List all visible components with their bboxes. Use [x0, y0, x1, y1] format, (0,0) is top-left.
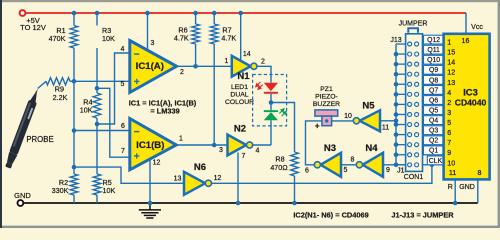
svg-text:13: 13 — [447, 79, 455, 87]
bus junction dots — [394, 52, 399, 57]
svg-text:16: 16 — [462, 37, 470, 45]
node CLK junction — [430, 163, 435, 168]
inverter N2 — [228, 135, 247, 156]
svg-text:7: 7 — [121, 148, 125, 155]
wire IC1(B) gnd pin 12 — [149, 158, 151, 203]
svg-text:CD4040: CD4040 — [455, 98, 487, 108]
svg-text:J1-J13 = JUMPER: J1-J13 = JUMPER — [391, 211, 454, 220]
wire N2 gnd — [237, 153, 239, 204]
wire rail to R3 — [96, 13, 98, 26]
svg-text:N5: N5 — [362, 101, 375, 112]
node N2 gnd — [236, 201, 241, 206]
svg-text:11: 11 — [382, 125, 389, 132]
svg-text:12: 12 — [214, 175, 222, 182]
node R8 gnd — [292, 201, 297, 206]
node LED mid — [269, 100, 274, 105]
connector CON1 — [406, 34, 423, 172]
resistor R5 — [93, 174, 101, 195]
svg-text:JUMPER: JUMPER — [399, 21, 428, 28]
wire left stubs — [396, 43, 406, 45]
wire R7 to IC1(B) output — [213, 44, 215, 145]
svg-text:8: 8 — [351, 157, 355, 164]
wire R4-R5 tap to pin 4 — [97, 53, 130, 124]
svg-text:330K: 330K — [52, 186, 69, 195]
counter IC3 — [444, 34, 490, 180]
svg-text:DUAL: DUAL — [230, 92, 248, 99]
wire R9 to probe node — [70, 80, 74, 82]
svg-text:Q11: Q11 — [427, 47, 440, 54]
svg-text:10K: 10K — [80, 106, 93, 115]
wire red LED to mid node — [270, 94, 272, 103]
resistor R7 — [210, 24, 218, 44]
wire IC3 pin 8 to GND — [477, 179, 479, 203]
svg-text:1: 1 — [179, 136, 183, 143]
svg-text:4: 4 — [121, 46, 125, 53]
wire N4 in to J1 — [383, 164, 406, 166]
svg-text:470K: 470K — [49, 34, 66, 43]
svg-text:COLOUR: COLOUR — [225, 99, 254, 106]
wire rail to R1 — [73, 13, 75, 26]
svg-text:13: 13 — [174, 176, 182, 183]
svg-text:1: 1 — [225, 58, 229, 65]
svg-text:10K: 10K — [102, 34, 115, 43]
probe tip wire — [38, 81, 46, 88]
wire probe node to N6 input — [74, 167, 184, 183]
Q output label boxes — [424, 35, 444, 44]
node rail-R6 — [193, 11, 198, 16]
svg-text:+: + — [315, 122, 320, 131]
probe body — [4, 87, 42, 169]
svg-text:BUZZER: BUZZER — [313, 101, 340, 108]
wire IC1(B) out to N2 — [176, 144, 227, 146]
GND terminal circle — [18, 200, 24, 206]
svg-text:4: 4 — [447, 89, 451, 97]
svg-text:IC2(N1- N6) = CD4069: IC2(N1- N6) = CD4069 — [293, 211, 368, 220]
svg-text:TO 12V: TO 12V — [20, 23, 46, 32]
svg-text:PIEZO-: PIEZO- — [315, 94, 338, 101]
svg-text:Q3: Q3 — [429, 128, 438, 135]
svg-text:CON1: CON1 — [404, 174, 424, 181]
wire R4 to R5 — [96, 118, 98, 174]
svg-text:5: 5 — [344, 167, 348, 174]
inverter N5 — [360, 110, 380, 131]
ground symbol — [139, 203, 161, 218]
svg-text:2: 2 — [447, 99, 451, 107]
svg-text:= LM339: = LM339 — [150, 107, 179, 116]
svg-text:5: 5 — [121, 81, 125, 88]
svg-text:2.2K: 2.2K — [53, 93, 68, 102]
wire N4 out to N3 in — [341, 164, 356, 166]
+V supply rail (red) — [23, 12, 466, 14]
svg-text:7: 7 — [242, 153, 246, 160]
svg-text:−: − — [134, 127, 140, 138]
op-amp IC1(A) — [130, 41, 177, 93]
svg-text:10K: 10K — [103, 186, 116, 195]
svg-text:9: 9 — [386, 167, 390, 174]
svg-text:2: 2 — [261, 59, 265, 66]
svg-text:N2: N2 — [234, 124, 246, 135]
node R4 bottom junction — [95, 122, 100, 127]
svg-text:GND: GND — [459, 184, 475, 191]
wire probe line to pin 5 — [74, 80, 130, 82]
node rail-N1 — [238, 11, 243, 16]
svg-text:Q12: Q12 — [427, 37, 440, 44]
svg-text:2: 2 — [180, 69, 184, 76]
node reset gnd — [453, 201, 458, 206]
svg-text:Q9: Q9 — [429, 67, 438, 74]
wire N1 out to LED — [257, 66, 271, 82]
svg-text:Q4: Q4 — [429, 118, 438, 125]
node rail-pin3 — [145, 11, 150, 16]
wire R8 to GND — [294, 176, 296, 203]
svg-text:+: + — [134, 77, 140, 88]
svg-text:Q6: Q6 — [429, 97, 438, 104]
inverter N1 — [232, 56, 251, 77]
wire R6 to IC1(A) output — [195, 44, 197, 66]
svg-text:1: 1 — [447, 39, 451, 47]
op-amp IC1(B) — [130, 119, 177, 170]
inverter N4 — [363, 153, 383, 177]
wire probe node to pin 6 — [74, 130, 131, 132]
node R6 junction — [193, 64, 198, 69]
svg-text:Q2: Q2 — [429, 138, 438, 145]
svg-text:6: 6 — [447, 129, 451, 137]
wire N1 Vdd pin 14 — [240, 13, 242, 61]
LED1 dashed box — [253, 75, 287, 126]
wire R3 to R4 — [96, 48, 98, 93]
wire buzzer to N5 out — [332, 120, 353, 122]
supply terminal circle — [20, 10, 26, 16]
wire buzzer to N3 out — [306, 121, 322, 165]
LED red (down) — [264, 83, 278, 91]
svg-text:J1: J1 — [397, 167, 405, 174]
node pin12 gnd — [148, 201, 153, 206]
wire N5 in to bus — [380, 120, 396, 122]
svg-text:8: 8 — [478, 169, 482, 177]
resistor R4 — [93, 93, 101, 118]
inverter N6 — [184, 172, 205, 195]
buzzer PZ1 — [315, 110, 338, 116]
svg-text:3: 3 — [219, 147, 223, 154]
LED green (up) — [264, 110, 278, 112]
wire R1 to probe node — [73, 48, 75, 174]
svg-text:N1: N1 — [237, 71, 250, 82]
svg-text:+: + — [134, 152, 140, 163]
svg-text:9: 9 — [447, 149, 451, 157]
svg-text:3: 3 — [151, 40, 155, 47]
svg-text:4.7K: 4.7K — [174, 34, 189, 43]
svg-text:Q7: Q7 — [429, 87, 438, 94]
svg-text:12: 12 — [153, 160, 161, 167]
wire IC1(A) Vcc pin 3 — [147, 13, 149, 51]
svg-text:10: 10 — [344, 113, 352, 120]
svg-text:−: − — [134, 50, 140, 61]
svg-text:10: 10 — [447, 159, 455, 167]
inverter N3 — [321, 153, 341, 177]
jumper bus — [395, 44, 397, 165]
svg-text:14: 14 — [243, 51, 251, 58]
LED green arrows — [279, 109, 286, 116]
wire rail to R7 — [213, 13, 215, 24]
jumper shunt symbol — [408, 28, 418, 33]
svg-text:J13: J13 — [390, 37, 401, 44]
resistor R8 — [291, 152, 299, 176]
svg-text:6: 6 — [121, 123, 125, 130]
svg-text:IC1(A): IC1(A) — [136, 61, 164, 72]
resistor R6 — [192, 24, 200, 44]
svg-text:Vcc: Vcc — [471, 24, 483, 31]
svg-text:N3: N3 — [324, 143, 336, 154]
svg-text:LED1: LED1 — [231, 84, 248, 91]
svg-text:PZ1: PZ1 — [320, 86, 333, 93]
svg-text:6: 6 — [305, 168, 309, 175]
node pin-6 tap — [72, 128, 77, 133]
node N6 tap — [72, 165, 77, 170]
svg-text:PROBE: PROBE — [26, 135, 53, 144]
frame border — [0, 0, 500, 2]
svg-text:14: 14 — [447, 59, 455, 67]
svg-text:Q8: Q8 — [429, 77, 438, 84]
node N5 bus tap — [394, 119, 399, 124]
svg-text:GND: GND — [14, 191, 31, 200]
wire right stubs to IC3 — [421, 43, 444, 45]
node rail-R3 — [95, 11, 100, 16]
wire R2 to GND — [73, 195, 75, 203]
svg-text:Q5: Q5 — [429, 107, 438, 114]
resistor R2 — [70, 174, 78, 195]
GND rail (black) — [23, 202, 478, 204]
svg-text:3: 3 — [447, 109, 451, 117]
wire rail to R6 — [195, 13, 197, 24]
svg-text:12: 12 — [447, 69, 455, 77]
LED red arrows — [256, 82, 263, 89]
svg-text:IC3: IC3 — [463, 87, 478, 98]
node rail-R1 — [72, 11, 77, 16]
Vcc wire to IC3 — [465, 13, 467, 34]
svg-text:470Ω: 470Ω — [270, 163, 288, 172]
wire N6 out to CLK — [211, 165, 432, 184]
svg-text:Q1: Q1 — [429, 148, 438, 155]
svg-text:R: R — [448, 184, 453, 191]
node J1 junction — [394, 163, 399, 168]
wire LED mid to R8 — [271, 103, 295, 153]
node rail-R7 — [212, 11, 217, 16]
wire R5 to GND — [96, 195, 98, 203]
svg-text:15: 15 — [447, 49, 455, 57]
svg-text:4: 4 — [256, 148, 260, 155]
node R7 junction — [212, 143, 217, 148]
node R3-R4 junction — [95, 86, 100, 91]
svg-text:CLK: CLK — [429, 158, 443, 165]
resistor R1 — [70, 26, 78, 49]
svg-text:7: 7 — [447, 139, 451, 147]
svg-text:N4: N4 — [365, 143, 378, 154]
svg-text:11: 11 — [449, 169, 456, 177]
node probe-R9 junction — [72, 79, 77, 84]
wire IC3 reset pin 11 to GND — [454, 179, 456, 203]
wire N2 out to LED — [253, 144, 271, 146]
wire LED mid node downward — [270, 103, 272, 111]
svg-text:5: 5 — [447, 119, 451, 127]
resistor R9 — [46, 78, 70, 85]
wire IC1(A) out to N1 — [177, 65, 232, 67]
svg-text:4.7K: 4.7K — [221, 34, 236, 43]
svg-text:Q10: Q10 — [427, 57, 440, 64]
svg-text:IC1(B): IC1(B) — [136, 140, 164, 151]
svg-text:N6: N6 — [194, 162, 206, 173]
wire R3-R4 tap to pin 7 — [97, 88, 131, 157]
